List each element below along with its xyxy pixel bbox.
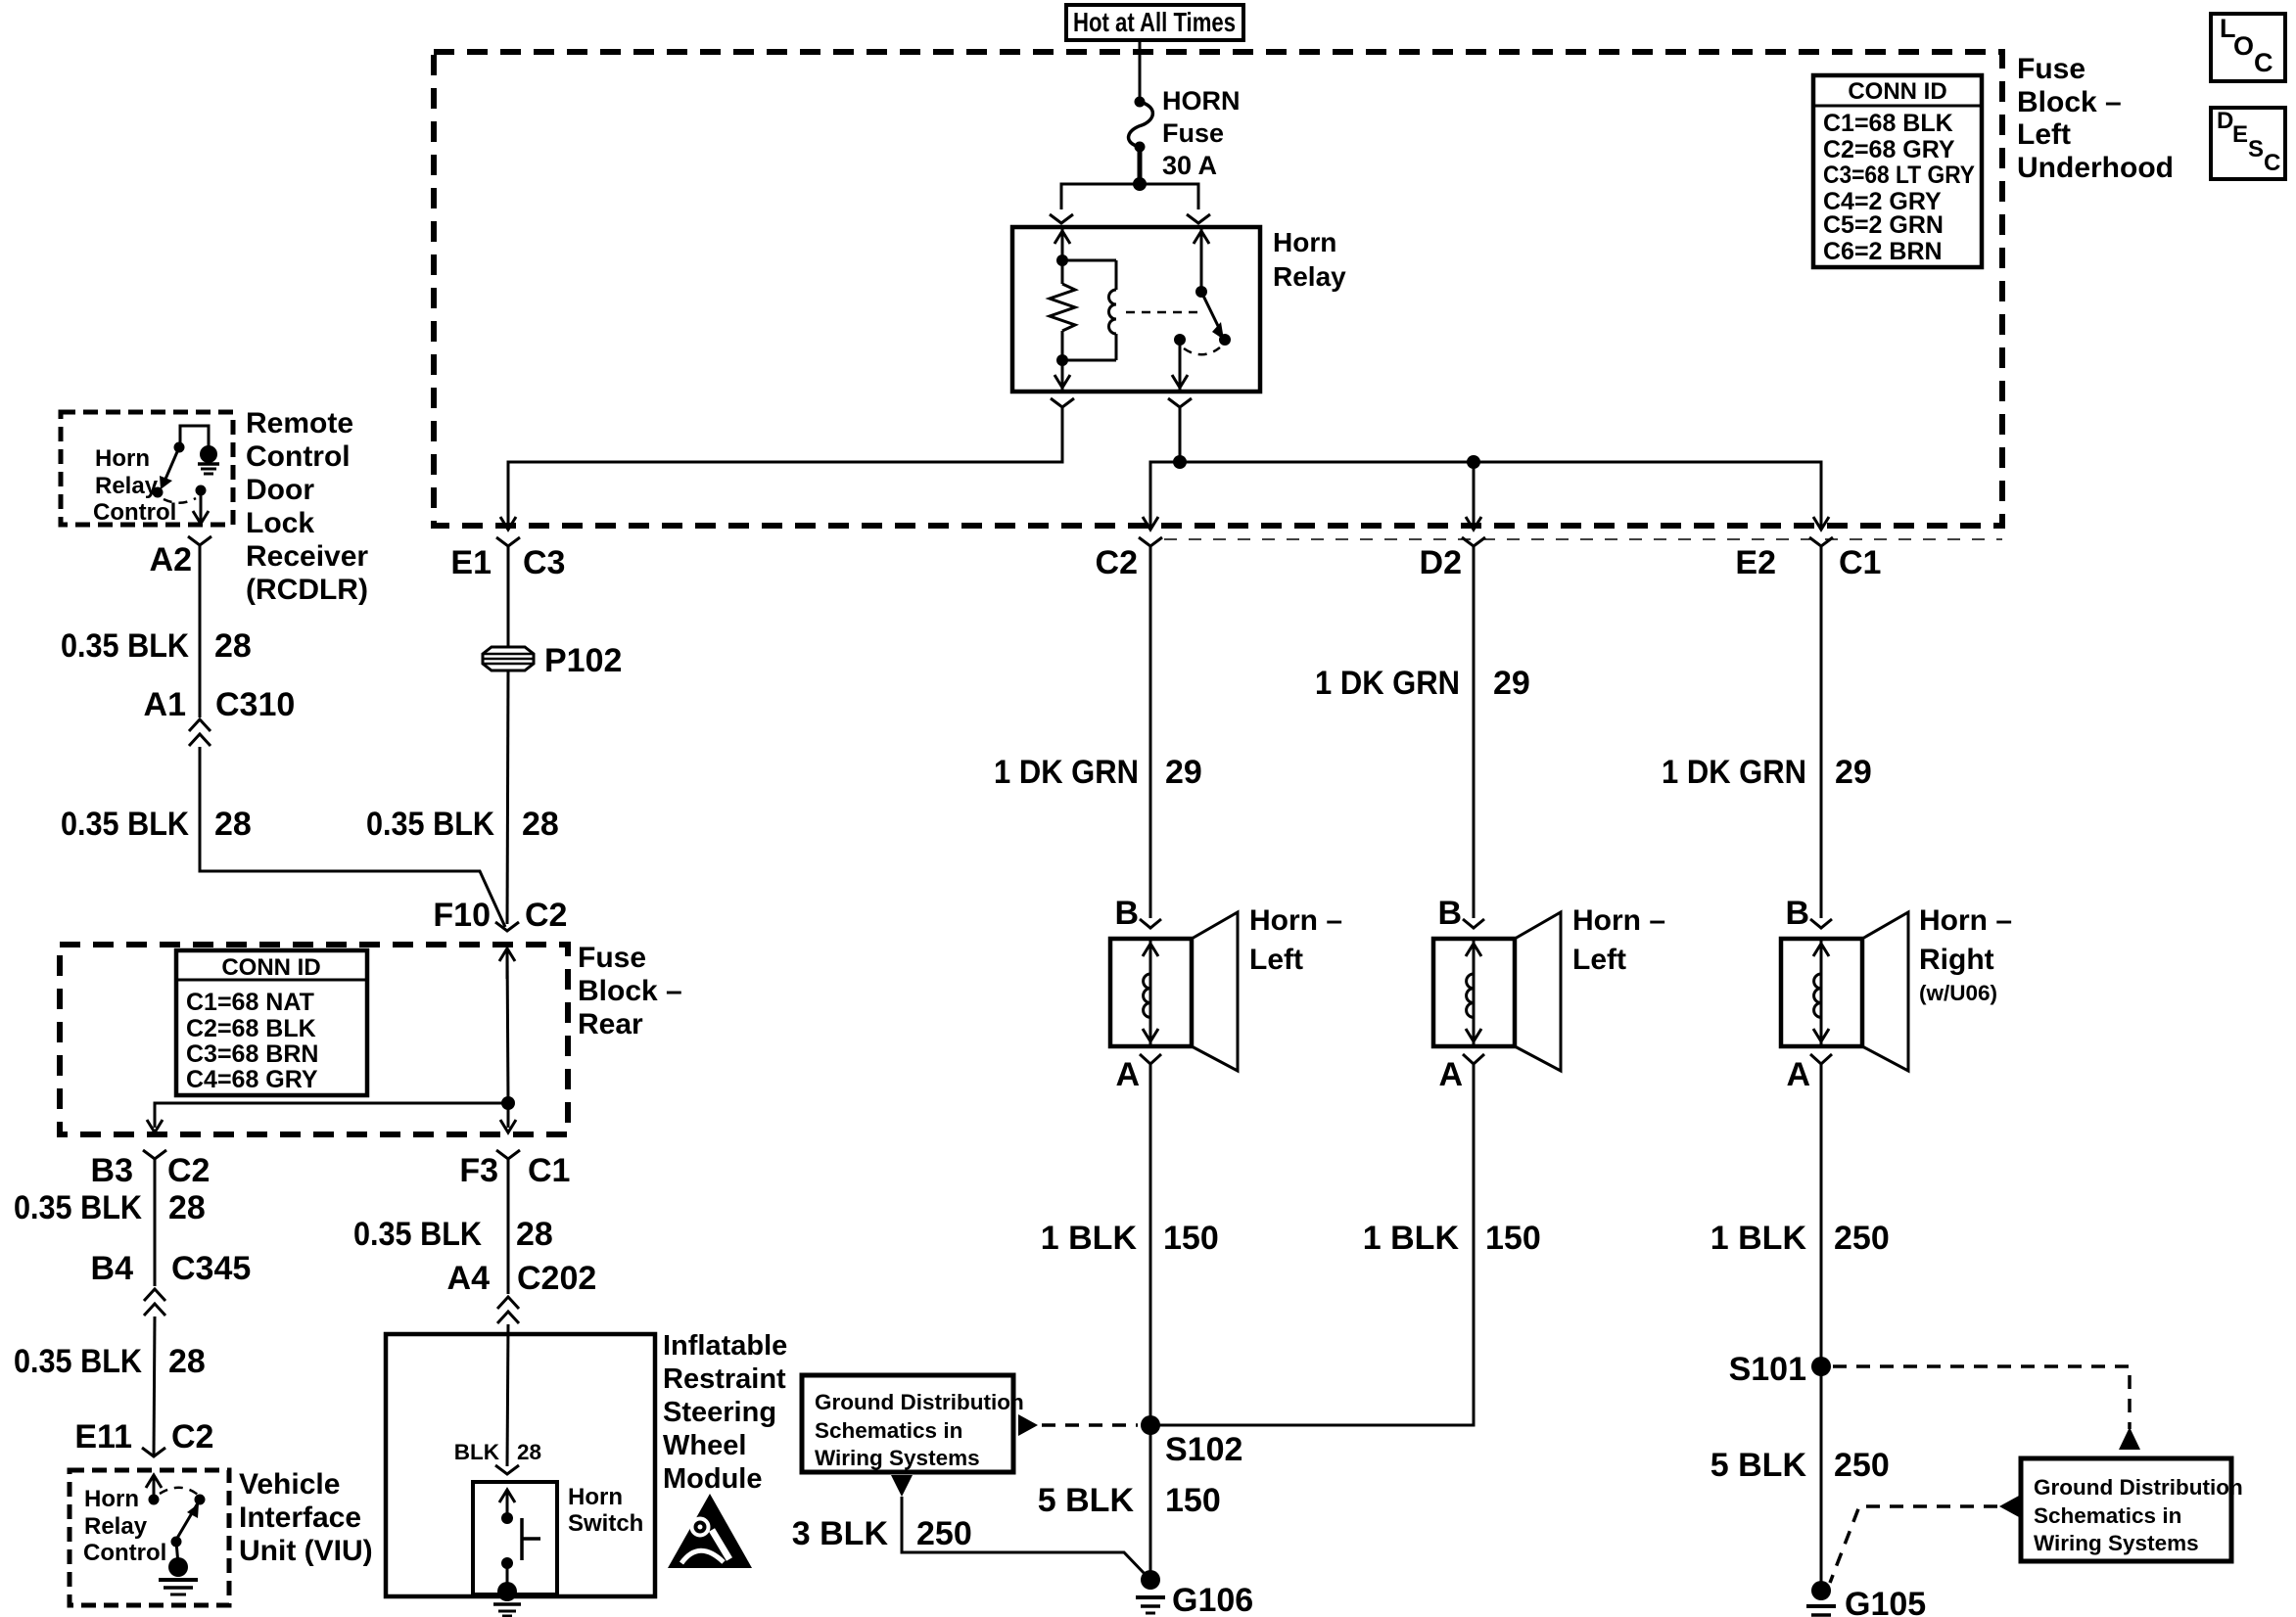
svg-text:Schematics in: Schematics in: [2034, 1503, 2181, 1528]
svg-text:Control: Control: [246, 440, 351, 473]
relay pin 30 lead (switch common from fuse) with arrow: [1194, 227, 1209, 292]
svg-text:F10: F10: [433, 897, 491, 934]
wire relay pin85 to connector E1 (coil return run): [508, 407, 1062, 527]
connector chevron C2: [1139, 537, 1162, 546]
connector chevron below relay pin 87: [1168, 398, 1192, 407]
svg-text:E2: E2: [1735, 544, 1776, 581]
relay switch output contact: [1174, 334, 1186, 346]
svg-text:(w/U06): (w/U06): [1919, 981, 1997, 1005]
label Inflatable Restraint Steering Wheel Module: [663, 1330, 787, 1495]
relay actuation dashed link: [1126, 311, 1204, 314]
splice S102: [1141, 1415, 1160, 1435]
horn switch ground dot: [497, 1582, 517, 1601]
relay K Horn Relay box: [1012, 227, 1260, 392]
relay pin 85 lead (coil return) with arrow through box bottom: [1054, 360, 1070, 390]
svg-text:0.35 BLK: 0.35 BLK: [14, 1343, 142, 1380]
horn switch moving contact dot (top): [501, 1512, 513, 1524]
label Remote Control Door Lock Receiver (RCDLR): [246, 407, 368, 606]
svg-text:1 DK GRN: 1 DK GRN: [1315, 665, 1460, 702]
svg-text:250: 250: [1834, 1447, 1890, 1484]
connector chevron at relay pin left: [1050, 214, 1073, 223]
horn switch input lead with arrow up: [499, 1490, 515, 1518]
svg-text:Left: Left: [1249, 944, 1303, 976]
junction on bus at D2 drop: [1467, 455, 1480, 469]
svg-text:Wiring Systems: Wiring Systems: [815, 1446, 980, 1470]
svg-text:Left: Left: [1572, 944, 1626, 976]
svg-text:A2: A2: [150, 541, 192, 578]
Ground Distribution callout box (left): [802, 1375, 1024, 1472]
svg-text:1 BLK: 1 BLK: [1710, 1220, 1807, 1257]
arrow at F3 exit: [500, 1120, 516, 1132]
svg-text:Horn: Horn: [84, 1486, 139, 1512]
RCDLR internal ground dot: [200, 445, 217, 463]
svg-text:Fuse: Fuse: [578, 942, 646, 974]
svg-text:28: 28: [516, 1216, 553, 1253]
svg-text:P102: P102: [544, 642, 622, 679]
wire C2 down to Horn Left B: [1149, 546, 1152, 918]
svg-text:Restraint: Restraint: [663, 1363, 786, 1395]
svg-text:O: O: [2233, 31, 2254, 61]
wire from fuse to junction: [1138, 147, 1143, 184]
ground G106 dot: [1141, 1570, 1160, 1590]
wire label 5 BLK 150: [1038, 1482, 1221, 1519]
svg-text:C310: C310: [215, 686, 295, 723]
Horn Switch box: [473, 1482, 557, 1594]
RCDLR switch travel dashed arc: [164, 498, 196, 503]
svg-text:Horn: Horn: [95, 445, 150, 472]
svg-text:S102: S102: [1165, 1431, 1242, 1468]
CONN ID table (Fuse Block - Left Underhood): [1813, 75, 1982, 267]
splice S101: [1811, 1357, 1831, 1376]
wire E1 down to P102: [507, 546, 510, 648]
wire label BLK 28: [454, 1440, 541, 1464]
relay switch arm rest contact: [1219, 334, 1231, 346]
wire C202 down into module (BLK 28): [507, 1324, 508, 1466]
svg-text:E11: E11: [74, 1418, 132, 1455]
svg-text:Block –: Block –: [2017, 86, 2122, 118]
svg-text:C6=2 BRN: C6=2 BRN: [1823, 238, 1943, 265]
ground G106 symbol: [1136, 1597, 1165, 1613]
svg-text:C: C: [2264, 150, 2280, 176]
svg-text:Control: Control: [93, 499, 176, 526]
svg-text:C1: C1: [528, 1152, 570, 1189]
svg-text:Module: Module: [663, 1463, 763, 1495]
svg-text:Door: Door: [246, 474, 314, 506]
arrow at B3 exit: [147, 1120, 163, 1132]
relay internal parallel branch rectangle: [1062, 260, 1116, 360]
RCDLR driver bracket wire: [180, 426, 209, 449]
RCDLR arm contact dot: [153, 487, 164, 498]
resistor inside relay (left branch): [1050, 260, 1075, 360]
label "Fuse Block - Left Underhood": [2017, 53, 2174, 184]
svg-text:0.35 BLK: 0.35 BLK: [61, 627, 189, 665]
wire A2 to C310 (0.35 BLK 28): [199, 545, 202, 717]
leader arrow to S102: [1018, 1414, 1138, 1436]
wire horn1 A down to G106 (1 BLK 150 / 5 BLK 150): [1149, 1064, 1152, 1580]
wire label 0.35 BLK 28 (lower left): [61, 806, 252, 843]
relay switch pivot: [1195, 286, 1207, 298]
wire branch to relay pins: [1061, 184, 1198, 209]
svg-text:28: 28: [522, 806, 559, 843]
svg-text:1 DK GRN: 1 DK GRN: [994, 754, 1139, 791]
label Horn - Left (1): [1249, 904, 1342, 976]
relay coil bottom junction: [1056, 354, 1068, 366]
svg-text:30 A: 30 A: [1162, 151, 1217, 180]
svg-text:C2: C2: [171, 1418, 213, 1455]
svg-text:Lock: Lock: [246, 507, 314, 539]
svg-text:C1: C1: [1839, 544, 1881, 581]
CONN ID table (Fuse Block - Rear): [176, 950, 367, 1095]
svg-text:1 BLK: 1 BLK: [1041, 1220, 1138, 1257]
svg-text:Switch: Switch: [568, 1510, 643, 1537]
svg-text:(RCDLR): (RCDLR): [246, 574, 368, 606]
wire from Hot at All Times down to HORN fuse: [1139, 40, 1142, 102]
svg-text:Block –: Block –: [578, 975, 682, 1007]
svg-text:E: E: [2232, 121, 2248, 148]
connector chevron E2: [1809, 537, 1833, 546]
svg-text:C1=68 NAT: C1=68 NAT: [186, 989, 314, 1016]
svg-text:B: B: [1114, 895, 1139, 932]
svg-text:5 BLK: 5 BLK: [1710, 1447, 1807, 1484]
svg-text:S101: S101: [1729, 1351, 1806, 1388]
relay pin 87 lead (switch output) with arrow: [1172, 340, 1188, 390]
svg-text:Horn –: Horn –: [1249, 904, 1342, 937]
label Horn - Right (w/U06): [1919, 904, 2012, 1005]
svg-text:Receiver: Receiver: [246, 540, 368, 573]
svg-text:Ground Distribution: Ground Distribution: [815, 1390, 1024, 1414]
junction splice on horn feed bus: [1173, 455, 1187, 469]
dashed leader S101 to Ground Distribution box (right): [1833, 1366, 2140, 1450]
leader arrow below left box (3 BLK 250 source): [891, 1475, 913, 1497]
svg-text:A: A: [1115, 1056, 1140, 1093]
svg-text:C3=68 BRN: C3=68 BRN: [186, 1040, 318, 1068]
wire label 1 DK GRN 29 (C2): [994, 754, 1202, 791]
svg-text:C5=2 GRN: C5=2 GRN: [1823, 211, 1944, 239]
svg-text:Relay: Relay: [1273, 261, 1346, 292]
svg-text:250: 250: [916, 1515, 972, 1552]
label Vehicle Interface Unit (VIU): [239, 1468, 373, 1567]
svg-text:CONN ID: CONN ID: [221, 954, 320, 981]
RCDLR dashed box (Horn Relay Control): [61, 412, 233, 525]
svg-text:G106: G106: [1172, 1582, 1253, 1617]
horn switch ground lead: [506, 1563, 509, 1590]
label Horn Relay: [1273, 227, 1346, 292]
VIU switch contact dot: [195, 1495, 206, 1505]
RCDLR switch arm with arrow: [160, 447, 179, 489]
svg-text:Fuse: Fuse: [2017, 53, 2085, 85]
svg-text:Wiring Systems: Wiring Systems: [2034, 1531, 2199, 1555]
power label box "Hot at All Times": [1066, 5, 1243, 40]
wire C345 down to E11 (0.35 BLK 28): [154, 1317, 155, 1456]
horn 2 (Horn - Left, D2 circuit): [1433, 912, 1561, 1071]
LOC legend box: [2211, 14, 2285, 81]
wire D2 down to Horn Left B: [1473, 546, 1476, 918]
arrow at E1 through dashed boundary: [500, 517, 516, 530]
svg-text:D: D: [2217, 108, 2233, 134]
svg-text:5 BLK: 5 BLK: [1038, 1482, 1135, 1519]
inline connector C202 double chevron: [497, 1297, 519, 1323]
VIU dashed box (Horn Relay Control): [70, 1470, 229, 1605]
svg-text:Control: Control: [83, 1540, 166, 1566]
connector chevron D2: [1462, 537, 1485, 546]
relay coil top junction: [1056, 254, 1068, 266]
wire label 0.35 BLK 28 (F3 run): [353, 1216, 553, 1253]
svg-text:C345: C345: [171, 1250, 251, 1287]
svg-text:Steering: Steering: [663, 1397, 776, 1428]
svg-text:B3: B3: [91, 1152, 133, 1189]
fuse HORN Fuse 30 A: [1129, 97, 1153, 153]
VIU switch arm with arrow: [176, 1501, 199, 1540]
svg-text:0.35 BLK: 0.35 BLK: [353, 1216, 482, 1253]
svg-text:28: 28: [168, 1189, 206, 1226]
svg-text:Left: Left: [2017, 118, 2071, 151]
junction inside rear fuse block: [501, 1096, 515, 1110]
svg-text:S: S: [2248, 136, 2264, 162]
wire F10 into Fuse Block Rear with arrow: [499, 948, 515, 979]
relay switch arm (normally open): [1201, 292, 1224, 340]
DESC legend box: [2211, 108, 2285, 179]
svg-text:Rear: Rear: [578, 1008, 643, 1040]
horn 1 (Horn - Left, C2 circuit): [1110, 912, 1238, 1071]
horn feed bus wire: [1150, 462, 1821, 527]
svg-text:1 BLK: 1 BLK: [1363, 1220, 1460, 1257]
RCDLR output lead with arrow through box bottom: [193, 490, 209, 524]
svg-text:C3: C3: [523, 544, 565, 581]
wire label 0.35 BLK 28 (upper): [61, 627, 252, 665]
svg-text:A4: A4: [447, 1260, 491, 1297]
svg-text:28: 28: [214, 806, 252, 843]
horn switch ground symbol: [493, 1604, 521, 1616]
svg-text:BLK: BLK: [454, 1440, 500, 1464]
connector chevron E1: [496, 537, 520, 546]
wire label 1 BLK 250: [1710, 1220, 1890, 1257]
svg-text:150: 150: [1165, 1482, 1221, 1519]
svg-text:C2: C2: [1096, 544, 1138, 581]
svg-text:28: 28: [517, 1440, 541, 1464]
svg-text:C2=68 BLK: C2=68 BLK: [186, 1015, 316, 1042]
relay switch travel dashed arc: [1184, 347, 1220, 354]
pass-through grommet P102: [483, 647, 534, 670]
wire F3 exit: [507, 1103, 510, 1128]
svg-text:150: 150: [1485, 1220, 1541, 1257]
svg-text:Wheel: Wheel: [663, 1430, 746, 1461]
svg-text:B: B: [1437, 895, 1462, 932]
Fuse Block - Rear dashed boundary box: [60, 945, 568, 1134]
svg-text:F3: F3: [459, 1152, 498, 1189]
svg-text:Horn –: Horn –: [1919, 904, 2012, 937]
svg-text:D2: D2: [1420, 544, 1462, 581]
Inflatable Restraint Steering Wheel Module box: [386, 1334, 655, 1596]
connector chevron at relay pin right: [1187, 214, 1210, 223]
wire label 1 BLK 150 (C2 ground run): [1041, 1220, 1219, 1257]
svg-text:29: 29: [1835, 754, 1872, 791]
wire E2 down to Horn Right B: [1820, 546, 1823, 918]
label Horn Relay Control (VIU): [83, 1486, 166, 1566]
ground G105 dot: [1811, 1581, 1831, 1600]
relay pin 86 lead (left, coil feed) with arrow: [1054, 227, 1070, 260]
svg-text:C2: C2: [525, 897, 567, 934]
svg-text:C1=68 BLK: C1=68 BLK: [1823, 110, 1953, 137]
svg-text:Interface: Interface: [239, 1501, 361, 1534]
inline connector C310 double chevron: [189, 719, 211, 746]
svg-text:C2=68 GRY: C2=68 GRY: [1823, 136, 1955, 163]
Ground Distribution callout box (right): [2021, 1458, 2243, 1561]
svg-text:C4=68 GRY: C4=68 GRY: [186, 1066, 318, 1093]
wire label 0.35 BLK 28 (B3 run): [14, 1189, 206, 1226]
VIU internal ground symbol: [159, 1580, 198, 1594]
svg-text:29: 29: [1165, 754, 1202, 791]
connector chevron E11: [142, 1448, 165, 1456]
wire label 1 DK GRN 29 (E2): [1662, 754, 1872, 791]
connector chevron F3: [496, 1150, 520, 1159]
svg-text:Horn –: Horn –: [1572, 904, 1665, 937]
connector chevron below relay pin 85: [1051, 398, 1074, 407]
svg-text:250: 250: [1834, 1220, 1890, 1257]
Fuse Block - Left Underhood dashed boundary box: [434, 52, 2002, 526]
ground G105 symbol: [1806, 1606, 1836, 1615]
svg-text:Horn: Horn: [1273, 227, 1336, 257]
svg-text:0.35 BLK: 0.35 BLK: [366, 806, 494, 843]
wire relay pin87 to distribution bus: [1179, 407, 1182, 462]
wire P102 down to F10 (0.35 BLK 28): [507, 670, 508, 924]
svg-text:Inflatable: Inflatable: [663, 1330, 787, 1362]
wire label 5 BLK 250: [1710, 1447, 1890, 1484]
label Horn Relay Control (RCDLR): [93, 445, 176, 526]
svg-text:G105: G105: [1845, 1586, 1926, 1617]
svg-text:HORN: HORN: [1162, 86, 1241, 115]
branch wire to B3 inside rear fuse block: [155, 1103, 508, 1128]
svg-text:Relay: Relay: [95, 473, 159, 499]
svg-text:Unit (VIU): Unit (VIU): [239, 1535, 373, 1567]
connector chevron B3: [143, 1150, 166, 1159]
horn 3 (Horn - Right, E2 circuit): [1781, 912, 1908, 1071]
thin dashed connector face line C2..C1: [1164, 538, 2002, 540]
wire horn3 A down to G105 (1 BLK 250 / 5 BLK 250): [1820, 1064, 1823, 1591]
dashed leader G105 to Ground Distribution box (right): [1830, 1496, 2019, 1583]
label Horn - Left (2): [1572, 904, 1665, 976]
svg-text:Relay: Relay: [84, 1513, 148, 1540]
svg-text:Fuse: Fuse: [1162, 118, 1224, 148]
svg-text:Schematics in: Schematics in: [815, 1418, 962, 1443]
wire label 0.35 BLK 28 (E11 run): [14, 1343, 206, 1380]
svg-text:150: 150: [1163, 1220, 1219, 1257]
svg-text:C2: C2: [167, 1152, 210, 1189]
wire label 1 BLK 150 (D2 ground run): [1363, 1220, 1541, 1257]
junction node below fuse: [1133, 177, 1147, 191]
arrow at C2 through dashed boundary: [1143, 517, 1158, 530]
svg-text:1 DK GRN: 1 DK GRN: [1662, 754, 1806, 791]
svg-text:CONN ID: CONN ID: [1848, 78, 1946, 105]
connector chevron F10: [495, 922, 519, 931]
horn switch lower contact dot: [501, 1557, 513, 1569]
svg-text:0.35 BLK: 0.35 BLK: [61, 806, 189, 843]
connector chevron at horn switch input: [495, 1465, 519, 1474]
wire label 1 DK GRN 29 (D2): [1315, 665, 1530, 702]
svg-text:A: A: [1438, 1056, 1463, 1093]
arrow at D2 through dashed boundary: [1466, 517, 1481, 530]
svg-text:E1: E1: [450, 544, 492, 581]
svg-text:28: 28: [168, 1343, 206, 1380]
svg-text:B: B: [1785, 895, 1809, 932]
VIU input lead with arrow up: [146, 1475, 162, 1500]
label HORN Fuse 30 A: [1162, 86, 1241, 180]
wire C310 down to F10 (0.35 BLK 28): [200, 747, 505, 927]
connector chevron A2: [188, 536, 211, 545]
svg-text:28: 28: [214, 627, 252, 665]
wire label 0.35 BLK 28 (E1 run): [366, 806, 559, 843]
wire horn2 A down and over to S102 (1 BLK 150): [1157, 1064, 1474, 1425]
svg-text:29: 29: [1493, 665, 1530, 702]
svg-text:Horn: Horn: [568, 1484, 623, 1510]
wire bus drop to D2: [1473, 462, 1476, 527]
RCDLR output contact dot: [196, 485, 207, 496]
svg-text:Hot at All Times: Hot at All Times: [1073, 7, 1236, 37]
svg-text:0.35 BLK: 0.35 BLK: [14, 1189, 142, 1226]
label Horn Switch: [568, 1484, 643, 1537]
svg-text:C3=68 LT GRY: C3=68 LT GRY: [1823, 162, 1975, 189]
VIU switch travel dashed arc: [160, 1488, 198, 1495]
RCDLR switch pivot dot: [174, 442, 185, 453]
svg-text:B4: B4: [91, 1250, 134, 1287]
arrow at E2 through dashed boundary: [1813, 517, 1829, 530]
VIU internal ground dot: [168, 1557, 188, 1577]
svg-text:C202: C202: [517, 1260, 596, 1297]
wire B3 down to C345 (0.35 BLK 28): [154, 1159, 157, 1286]
wire inside rear fuse block from F10: [507, 948, 508, 1103]
relay coil winding (right branch): [1109, 290, 1116, 334]
wire 3 BLK 250 to G106: [902, 1497, 1148, 1577]
horn switch fixed contact bar: [522, 1518, 540, 1560]
svg-text:A: A: [1786, 1056, 1810, 1093]
svg-text:3 BLK: 3 BLK: [792, 1515, 889, 1552]
VIU input contact dot: [149, 1495, 160, 1505]
RCDLR internal ground symbol: [198, 464, 219, 474]
inline connector C345 double chevron: [144, 1289, 165, 1316]
svg-text:Ground Distribution: Ground Distribution: [2034, 1475, 2243, 1500]
label Fuse Block - Rear: [578, 942, 682, 1040]
svg-text:C: C: [2254, 48, 2273, 77]
airbag warning triangle: [668, 1494, 752, 1568]
svg-text:Underhood: Underhood: [2017, 152, 2174, 184]
wire label 3 BLK 250: [792, 1515, 972, 1552]
svg-text:Remote: Remote: [246, 407, 353, 439]
svg-text:Right: Right: [1919, 944, 1994, 976]
wire F3 down to C202 (0.35 BLK 28): [507, 1159, 510, 1294]
svg-text:A1: A1: [144, 686, 186, 723]
svg-text:Vehicle: Vehicle: [239, 1468, 340, 1501]
